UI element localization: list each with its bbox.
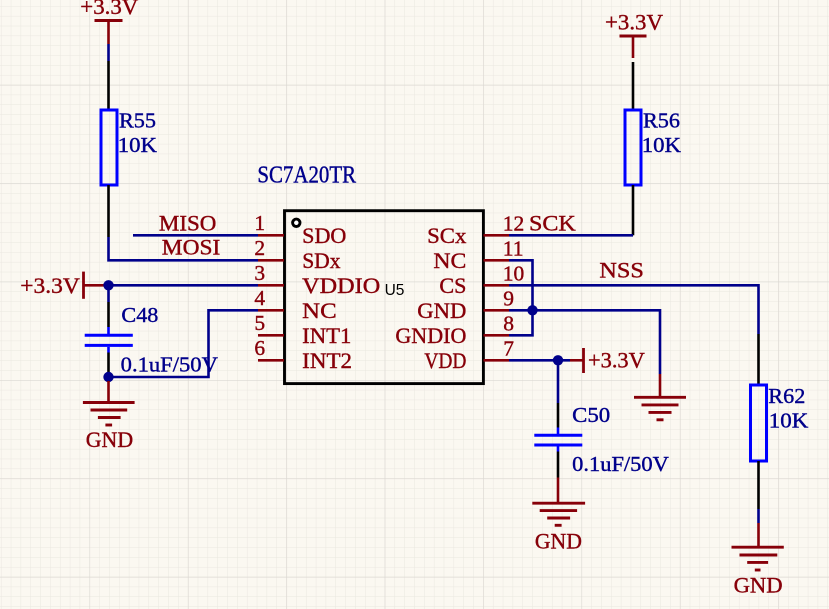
pin 10 CS xyxy=(439,261,524,298)
svg-text:0.1uF/50V: 0.1uF/50V xyxy=(121,352,219,376)
junction (VDD node) xyxy=(553,355,563,365)
svg-text:R55: R55 xyxy=(119,108,156,132)
wire (black, to C50) xyxy=(557,403,560,428)
wire (red stem to GND) xyxy=(107,381,110,403)
wire (navy, R55 to MOSI line) xyxy=(109,237,259,260)
pin 1 SDO xyxy=(254,211,346,248)
resistor R62 xyxy=(751,384,809,461)
pin 11 NC xyxy=(433,236,523,273)
wire (blue stub under C48) xyxy=(107,347,110,353)
svg-text:7: 7 xyxy=(503,336,514,360)
svg-text:MISO: MISO xyxy=(159,210,217,235)
wire (pin 9 to ground) xyxy=(509,310,660,374)
svg-text:SCx: SCx xyxy=(427,223,466,248)
wire (blue stub under C50) xyxy=(557,447,560,452)
svg-text:+3.3V: +3.3V xyxy=(588,348,645,373)
svg-text:GND: GND xyxy=(417,298,466,323)
power +3.3V (top left, above R55) xyxy=(80,0,138,44)
wire (black, to R56 top) xyxy=(632,62,635,110)
wire (black, NSS to R62) xyxy=(757,334,760,385)
svg-text:NC: NC xyxy=(302,298,336,323)
svg-text:R56: R56 xyxy=(643,108,680,132)
svg-text:C50: C50 xyxy=(572,403,610,427)
wire (navy, down from junction) xyxy=(107,285,110,302)
ground GND (C48) xyxy=(83,403,135,453)
wire (black, C50 to ground stem) xyxy=(557,452,560,478)
svg-text:10: 10 xyxy=(503,261,525,285)
svg-text:+3.3V: +3.3V xyxy=(605,10,663,35)
svg-text:8: 8 xyxy=(503,311,514,335)
svg-text:U5: U5 xyxy=(385,282,405,299)
svg-text:9: 9 xyxy=(503,286,514,310)
wire (black, R56 bottom) xyxy=(632,185,635,235)
junction (pin 9 node) xyxy=(527,305,537,315)
svg-text:10K: 10K xyxy=(769,409,809,433)
wire SCK xyxy=(509,234,633,237)
wire NSS xyxy=(509,285,759,334)
svg-text:MOSI: MOSI xyxy=(162,235,221,260)
power +3.3V (left, VDDIO) xyxy=(20,272,106,299)
svg-text:R62: R62 xyxy=(768,384,805,408)
svg-text:10K: 10K xyxy=(642,133,682,157)
wire (black, to R55 top) xyxy=(107,61,110,110)
wire (navy stub under power bar) xyxy=(107,44,110,61)
wire (black under C48) xyxy=(107,353,110,374)
pin 9 GND xyxy=(417,286,514,323)
svg-text:NC: NC xyxy=(433,248,466,273)
pin 1 marker circle xyxy=(293,219,300,226)
svg-text:GND: GND xyxy=(535,528,582,553)
svg-text:VDD: VDD xyxy=(424,348,466,373)
resistor R55 xyxy=(101,108,157,185)
svg-text:SDO: SDO xyxy=(302,223,346,248)
pin 3 VDDIO xyxy=(254,261,380,298)
ground (pin 9, unlabeled) xyxy=(634,397,686,420)
power +3.3V (pin 7 VDD) xyxy=(570,348,645,373)
pin 7 VDD xyxy=(424,336,514,373)
power +3.3V (top right, above R56) xyxy=(605,10,663,58)
svg-text:INT1: INT1 xyxy=(302,323,351,348)
svg-text:GND: GND xyxy=(86,427,133,452)
wire (red stem to GND) xyxy=(757,523,760,547)
pin 4 NC xyxy=(254,286,336,323)
wire (black, R62 bottom) xyxy=(757,461,760,509)
junction (VDDIO node) xyxy=(103,280,113,290)
pin 2 SDx xyxy=(254,236,340,273)
svg-text:3: 3 xyxy=(254,261,265,285)
svg-text:5: 5 xyxy=(254,311,265,335)
svg-text:SCK: SCK xyxy=(529,211,576,236)
wire (red stem to GND) xyxy=(557,478,560,504)
svg-text:GNDIO: GNDIO xyxy=(395,323,466,348)
capacitor C48 xyxy=(85,303,159,345)
svg-text:VDDIO: VDDIO xyxy=(302,273,380,298)
wire (navy, down from VDD junction) xyxy=(557,360,560,403)
svg-text:SDx: SDx xyxy=(302,248,340,273)
svg-text:10K: 10K xyxy=(118,133,158,157)
ground GND (R62) xyxy=(732,547,784,597)
svg-text:+3.3V: +3.3V xyxy=(80,0,138,19)
resistor R56 xyxy=(625,108,681,185)
svg-text:+3.3V: +3.3V xyxy=(20,273,80,298)
wire MISO xyxy=(133,234,258,237)
wire (red stem to ground) xyxy=(659,374,662,397)
wire (pin 11 to pin 8) xyxy=(509,260,533,335)
svg-text:4: 4 xyxy=(254,286,265,310)
wire (to pin 3) xyxy=(109,284,259,287)
pin 12 SCx xyxy=(427,211,524,248)
svg-text:12: 12 xyxy=(503,211,525,235)
svg-text:GND: GND xyxy=(734,573,783,598)
ground GND (C50) xyxy=(532,503,585,553)
svg-text:C48: C48 xyxy=(121,303,158,327)
svg-text:1: 1 xyxy=(254,211,265,235)
pin 5 INT1 xyxy=(254,311,351,348)
wire (pin 7) xyxy=(509,359,570,362)
svg-text:2: 2 xyxy=(254,236,265,260)
wire (C48 bottom junction to pin 4) xyxy=(109,310,259,377)
svg-text:0.1uF/50V: 0.1uF/50V xyxy=(572,452,669,476)
wire (black, to C48) xyxy=(107,302,110,327)
svg-text:CS: CS xyxy=(439,273,466,298)
IC U5 box xyxy=(285,211,484,384)
pin 8 GNDIO xyxy=(395,311,514,348)
wire (navy stub below R62) xyxy=(757,509,760,523)
wire (black, R55 bottom) xyxy=(107,185,110,237)
svg-text:INT2: INT2 xyxy=(302,348,352,373)
svg-text:6: 6 xyxy=(254,336,265,360)
svg-text:11: 11 xyxy=(503,236,524,260)
junction (C48 bottom) xyxy=(103,372,113,382)
svg-text:NSS: NSS xyxy=(599,258,644,283)
capacitor C50 xyxy=(534,403,610,445)
svg-text:SC7A20TR: SC7A20TR xyxy=(257,163,356,189)
pin 6 INT2 xyxy=(254,336,352,373)
